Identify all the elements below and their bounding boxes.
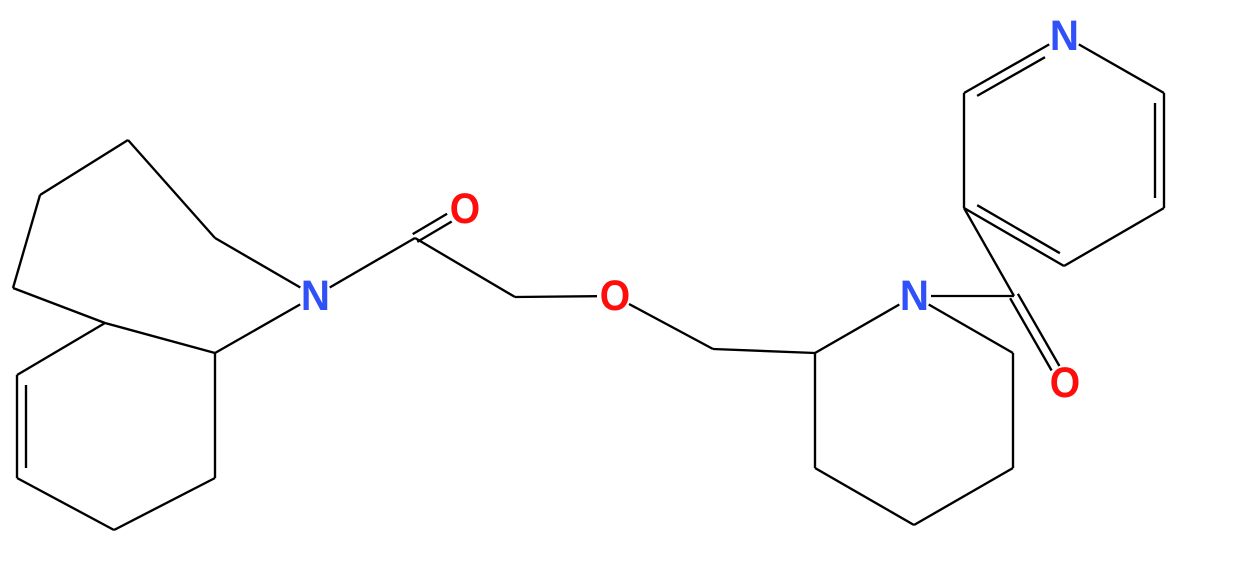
bond cyclohexene Q-R	[114, 478, 215, 530]
bond pyridine PY2=N3	[964, 44, 1049, 96]
bond azepane V-F	[13, 288, 105, 323]
svg-text:O: O	[600, 272, 630, 320]
bond amide N1-C1	[330, 238, 415, 288]
bond azepane T-U	[40, 140, 128, 195]
bond pip PNW-PSW	[814, 353, 816, 468]
svg-text:O: O	[450, 185, 480, 233]
bond AC-PY3	[964, 208, 1014, 296]
bond M-O2	[515, 295, 597, 298]
bond azepane G-N1	[215, 304, 300, 353]
bond carbonyl C1=O1	[413, 214, 452, 242]
bond cyclohexene P2-Q	[17, 478, 114, 530]
bond azepane A-T	[128, 140, 215, 238]
bond pip PSW-PS	[815, 468, 914, 525]
bond azepane N1-A	[215, 238, 300, 288]
bond pyridine PY6=PY5	[1155, 93, 1164, 208]
bond pyridine N3-PY6	[1079, 44, 1164, 93]
bond cyclohexene double P1=P2	[17, 375, 26, 478]
bond cyclohexene R-G	[214, 353, 216, 478]
svg-text:O: O	[1050, 359, 1080, 407]
bond pyridine PY4=PY3	[964, 205, 1064, 266]
bond amide N2-AC	[931, 295, 1014, 297]
bond pip PNE-N2	[929, 305, 1013, 354]
bond pyridine PY3-PY2	[963, 93, 965, 208]
bond carbonyl AC=O3	[1010, 294, 1059, 371]
bond C1-M	[415, 238, 515, 297]
bond pip N2-PNW	[815, 305, 899, 354]
svg-text:N: N	[900, 272, 929, 320]
bond pip PSE-PNE	[1012, 353, 1014, 468]
bond cyclohexene F-P1	[17, 323, 105, 375]
bond O2-W	[629, 304, 713, 349]
bond azepane U-V	[13, 195, 40, 288]
svg-text:N: N	[301, 272, 330, 320]
bond pyridine PY5-PY4	[1064, 208, 1164, 266]
bond W-ring	[713, 349, 815, 353]
bond pip PS-PSE	[914, 468, 1013, 525]
bond fusion F-G	[105, 323, 215, 353]
svg-text:N: N	[1050, 12, 1079, 60]
